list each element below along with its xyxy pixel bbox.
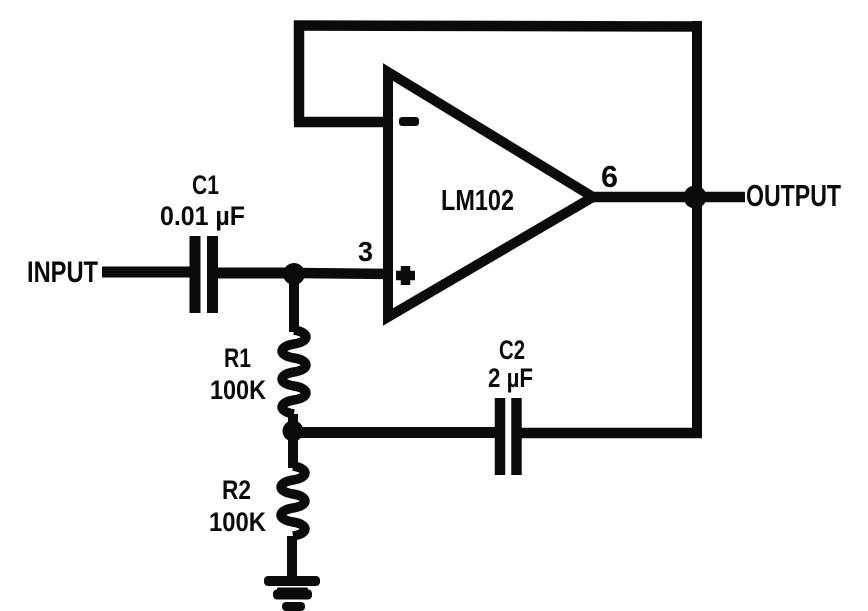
svg-text:C1: C1	[192, 170, 219, 200]
svg-text:6: 6	[601, 159, 618, 194]
wire input lead	[102, 267, 190, 278]
svg-text:R1: R1	[224, 343, 251, 373]
wire C1 to node A	[218, 268, 296, 279]
op-amp U1 triangle	[388, 72, 593, 317]
node A junction dot	[283, 263, 305, 285]
wire node A down to R1	[289, 274, 299, 332]
resistor R1	[282, 330, 306, 414]
wire C2 to feedback right leg	[521, 428, 702, 439]
wire node B to C2	[293, 427, 496, 438]
ground	[264, 576, 320, 611]
node C output junction dot	[684, 186, 707, 209]
svg-text:INPUT: INPUT	[27, 256, 98, 289]
node B junction dot	[283, 421, 304, 442]
wire feedback top	[294, 26, 702, 27]
wire feedback to op-amp minus input	[294, 117, 391, 128]
wire R1 to node B	[288, 414, 298, 432]
op-amp plus sign	[396, 266, 415, 285]
wire output lead	[588, 192, 745, 203]
wire node A to op-amp pin 3	[296, 273, 392, 274]
op-amp minus sign	[399, 117, 419, 126]
svg-text:OUTPUT: OUTPUT	[746, 178, 841, 213]
svg-text:100K: 100K	[209, 507, 266, 537]
svg-text:C2: C2	[499, 335, 525, 365]
capacitor C1	[195, 236, 213, 313]
resistor R2	[281, 466, 305, 536]
wire feedback right vertical	[692, 21, 702, 433]
svg-text:0.01 µF: 0.01 µF	[160, 201, 245, 231]
svg-text:100K: 100K	[210, 375, 266, 405]
capacitor C2	[500, 398, 517, 475]
svg-text:3: 3	[358, 236, 373, 267]
wire R2 to ground	[287, 536, 297, 579]
svg-text:LM102: LM102	[441, 185, 514, 217]
wire node B down to R2	[288, 431, 298, 468]
svg-text:R2: R2	[222, 475, 251, 505]
wire feedback left vertical	[294, 21, 305, 122]
svg-text:2 µF: 2 µF	[488, 363, 533, 393]
